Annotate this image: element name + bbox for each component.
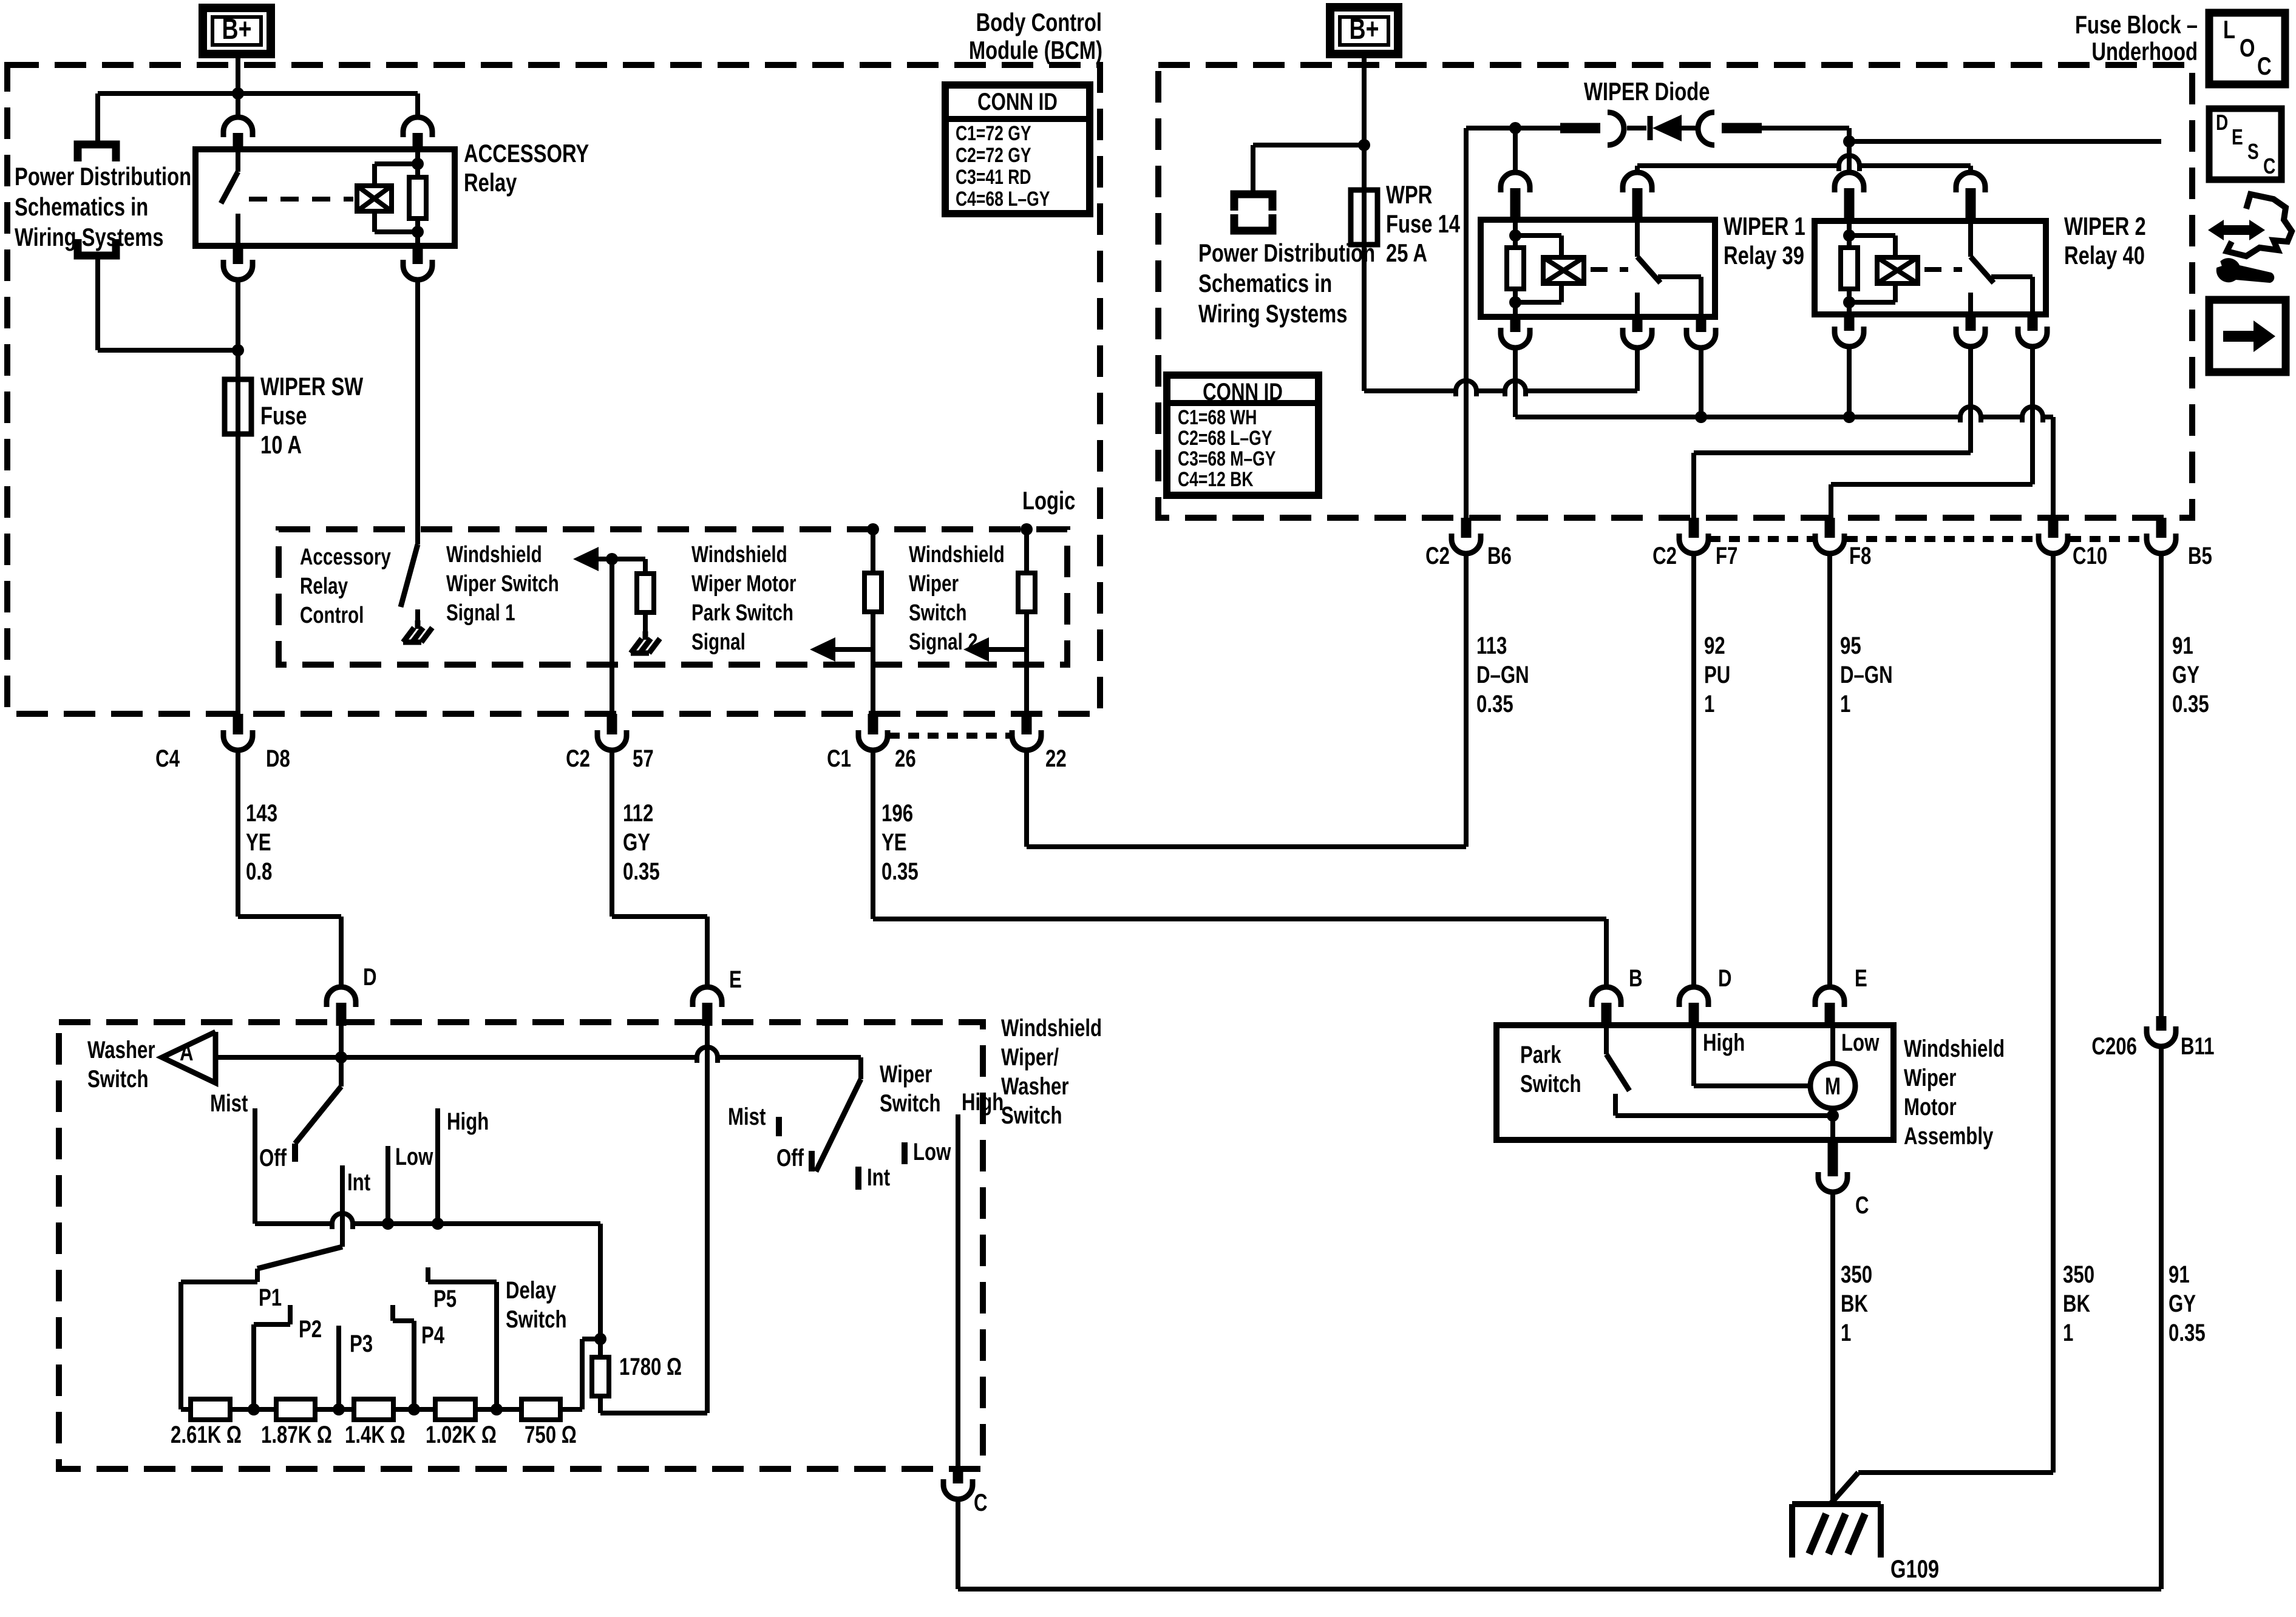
connector pin D (switch) [327,987,356,1007]
connector pin C (switch) [953,1469,963,1483]
node relay39 coil junctions [1509,229,1521,242]
relay coil (relay39) [1543,257,1584,283]
svg-text:CONN ID: CONN ID [977,88,1058,115]
svg-text:Relay 39: Relay 39 [1724,241,1804,269]
tap P5 [494,1282,499,1409]
svg-text:350: 350 [2063,1261,2094,1288]
wire relay39 coil loop [1515,233,1561,238]
wire 113 D-GN 0.35 (22 to B6) [1024,750,1029,847]
svg-text:C2=68 L–GY: C2=68 L–GY [1178,427,1272,450]
svg-text:C2: C2 [566,745,590,772]
svg-text:D–GN: D–GN [1476,661,1529,688]
svg-text:Switch: Switch [880,1090,941,1117]
svg-text:D: D [1718,964,1732,992]
switch: wiper mode selector (left bank) [295,1086,341,1144]
svg-text:B: B [1629,964,1643,992]
svg-text:Assembly: Assembly [1904,1122,1993,1150]
wire 143 YE 0.8 (D8 to wiper switch D) [236,750,240,917]
switch: wiper mode selector (right bank) [858,1057,863,1079]
diode D-WIPER [1648,116,1653,140]
ground G109 [1792,1501,1881,1507]
svg-text:E: E [729,966,742,993]
resistor chain wire [181,1407,191,1412]
svg-text:Park Switch: Park Switch [691,600,793,626]
resistor (park switch signal) [871,529,875,573]
svg-text:Logic: Logic [1022,486,1075,515]
node pin-26 net at logic boundary [867,523,879,535]
svg-text:CONN ID: CONN ID [1203,378,1283,405]
connector pin E (switch) [693,987,722,1007]
next-arrow icon box [2209,300,2286,372]
svg-text:Washer: Washer [1001,1073,1069,1100]
connector pin: relay40 bottom-middle [1966,314,1976,331]
connector pin E (motor) [1815,987,1844,1007]
connector pin: relay40 top-left [1835,172,1864,192]
wire E line down [705,1026,710,1413]
wire switch C to ground bus [956,1499,960,1589]
svg-text:Motor: Motor [1904,1093,1957,1120]
svg-text:Mist: Mist [728,1103,766,1130]
wire 350 BK 1 (motor C to ground) [1830,1192,1835,1505]
Logic dashed sub-box [279,529,1067,665]
connector pin: relay39 bottom-left [1510,317,1521,332]
svg-text:26: 26 [895,745,916,772]
resistor 1780 [598,1339,603,1357]
svg-text:0.8: 0.8 [246,858,272,885]
svg-text:B6: B6 [1487,542,1512,569]
svg-text:Low: Low [1841,1029,1879,1056]
svg-text:C2: C2 [1652,542,1677,569]
node B+ right junction [1358,139,1370,151]
svg-text:Switch: Switch [87,1065,149,1093]
wire relay39 pivot link to relay40 pivot (hops coil wire) [1635,166,1640,174]
arrow: wiper switch signal 1 [573,547,599,571]
connector pin D (motor) [1679,987,1708,1007]
switch: accessory relay control driver [401,544,418,607]
svg-text:D: D [363,963,377,991]
svg-text:Signal 1: Signal 1 [446,600,515,626]
svg-text:0.35: 0.35 [2169,1319,2206,1346]
svg-text:P5: P5 [433,1285,457,1312]
svg-text:0.35: 0.35 [2172,690,2209,717]
wire motor low lead [1830,1108,1835,1140]
svg-text:C10: C10 [2073,542,2107,569]
svg-text:GY: GY [2172,661,2199,688]
svg-text:GY: GY [2169,1290,2196,1317]
svg-text:High: High [1703,1029,1745,1056]
svg-text:WIPER 1: WIPER 1 [1724,212,1805,240]
svg-text:Underhood: Underhood [2091,37,2198,66]
wire left branch to power distribution bracket [95,93,100,144]
node washer/D junction [339,1026,344,1086]
svg-text:113: 113 [1476,632,1507,659]
WIPER 1 Relay 39 box K39 [1481,220,1715,317]
svg-text:C: C [974,1489,988,1516]
svg-text:91: 91 [2169,1261,2190,1288]
svg-text:WIPER Diode: WIPER Diode [1584,77,1710,106]
svg-text:Control: Control [300,603,364,628]
resistor (relay40 internal) [1847,221,1852,248]
svg-text:Fuse Block –: Fuse Block – [2075,10,2198,39]
svg-text:Windshield: Windshield [1904,1035,2005,1062]
svg-text:WIPER 2: WIPER 2 [2064,212,2146,240]
resistor 1.02K [435,1399,475,1420]
wire fuse output down [1362,245,1367,391]
svg-text:Low: Low [395,1143,433,1170]
wire B+ to relay top-right pin [415,93,420,117]
resistor (accessory relay internal) [415,149,420,177]
connector pin C10 [2048,518,2059,538]
svg-text:P3: P3 [350,1330,373,1357]
wire B+ stem [1362,54,1367,190]
svg-text:Schematics in: Schematics in [15,192,148,221]
svg-text:Low: Low [913,1138,951,1165]
svg-text:YE: YE [881,829,907,856]
node coil/resistor junctions [412,158,424,170]
washer switch off-page triangle A [162,1032,216,1083]
svg-text:C: C [2257,52,2272,80]
svg-text:C1: C1 [827,745,851,772]
off-page bracket (top) Power Distribution [78,144,116,161]
wire diode feed line [1466,126,1560,131]
node pin-22 net at logic boundary [1021,523,1033,535]
relay switch (relay39 contacts) [1635,220,1640,257]
wire delay pivot to resistor chain [181,1280,257,1284]
connector body dotted line (C1..22) [889,733,1011,739]
svg-text:F8: F8 [1849,542,1871,569]
svg-text:C1=68 WH: C1=68 WH [1178,406,1257,429]
node diode tap on WIPER1 coil feed [1509,122,1521,134]
svg-text:S: S [2247,140,2259,164]
wire fuse to pin D8 [236,434,240,714]
wire coil parallel loop [372,164,377,186]
svg-text:E: E [2232,125,2243,149]
contact Int (left) [340,1165,345,1247]
contact High (left) [435,1108,440,1222]
connector pin B5 [2156,518,2167,538]
svg-text:Off: Off [776,1144,804,1171]
svg-text:WPR: WPR [1386,180,1432,209]
svg-text:C4: C4 [155,745,180,772]
svg-text:Wiper: Wiper [909,571,959,597]
wire washer feed line (hops E wire) [216,1055,697,1060]
connector pin: relay40 top-right [1956,172,1985,192]
svg-text:0.35: 0.35 [623,858,660,885]
svg-text:10 A: 10 A [260,430,302,459]
wire motor high lead [1691,1028,1696,1086]
svg-text:E: E [1855,964,1867,992]
wire 350 BK 1 (C10 to ground) [2051,554,2056,1473]
svg-text:C4=68 L–GY: C4=68 L–GY [956,188,1050,211]
svg-text:B11: B11 [2181,1032,2215,1060]
svg-text:92: 92 [1704,632,1725,659]
power terminal B+ (left) [203,8,271,54]
wire resistor bus (hops Int line) [253,1222,257,1224]
svg-text:1: 1 [1840,690,1850,717]
off-page bracket (top, right side) [1234,194,1272,211]
connector body dotted line (F7..B5) [1710,536,1813,542]
svg-text:Washer: Washer [87,1036,155,1063]
connector pin: relay top-left (female cap + stub) [223,117,253,137]
node relay40 coil junctions [1843,229,1855,242]
connector pin: relay top-right [403,117,432,137]
contact Off (right) [809,1151,815,1171]
svg-text:C3=68 M–GY: C3=68 M–GY [1178,447,1275,470]
svg-text:1: 1 [1841,1319,1851,1346]
swap-arrows / vehicle icon [2208,220,2224,240]
connector pin: relay40 bottom-left [1844,314,1855,331]
contact Low (right) [902,1142,908,1164]
wire B6 branch down from diode line [1464,128,1469,518]
node: B+ distribution junction [98,91,418,96]
svg-text:Wiper/: Wiper/ [1001,1043,1059,1071]
svg-text:Wiring Systems: Wiring Systems [15,223,163,251]
contact Off (left) [292,1144,298,1162]
svg-text:C3=41 RD: C3=41 RD [956,166,1031,189]
svg-text:Off: Off [259,1144,287,1171]
resistor (signal 2) [1024,529,1029,573]
LOC icon box [2209,13,2285,84]
svg-text:1.02K Ω: 1.02K Ω [426,1421,497,1448]
contact Int (right) [855,1167,861,1190]
svg-text:1780 Ω: 1780 Ω [619,1353,682,1380]
svg-text:PU: PU [1704,661,1730,688]
ground (signal 1) [643,612,648,631]
BCM module dashed boundary box [7,65,1100,714]
contact Mist (left) [253,1108,257,1222]
svg-text:Switch: Switch [1001,1102,1062,1129]
svg-text:Wiper: Wiper [880,1060,932,1088]
tap P1 [251,1324,256,1409]
svg-text:O: O [2240,33,2255,62]
svg-text:C2: C2 [1425,542,1450,569]
svg-text:A: A [180,1039,194,1066]
relay coil (accessory relay) [357,186,392,211]
wire 91 GY 0.35 upper (B5 to C206) [2159,554,2164,1016]
svg-text:M: M [1825,1073,1841,1100]
svg-text:Int: Int [867,1164,890,1191]
connector pin: relay39 top-left [1501,172,1530,192]
connector C2 pin F7 [1689,518,1699,538]
CONN ID table (Fuse Block) [1167,375,1319,495]
svg-text:196: 196 [881,799,913,827]
svg-text:22: 22 [1045,745,1067,772]
svg-text:95: 95 [1840,632,1861,659]
svg-text:1: 1 [2063,1319,2073,1346]
svg-text:Fuse 14: Fuse 14 [1386,209,1460,238]
svg-text:Signal: Signal [691,629,746,655]
svg-text:1.87K Ω: 1.87K Ω [261,1421,332,1448]
svg-text:Fuse: Fuse [260,401,307,430]
svg-text:B+: B+ [222,13,252,46]
connector C1 pin 26 [868,714,878,734]
svg-text:Switch: Switch [506,1306,567,1333]
wire WIPER1 relay coil top feed [1513,128,1518,174]
svg-text:Windshield: Windshield [691,542,787,568]
node signal-1 junction [606,553,618,565]
svg-text:High: High [447,1108,489,1135]
svg-text:25 A: 25 A [1386,239,1427,267]
wrench icon [2216,258,2274,283]
svg-text:Windshield: Windshield [1001,1014,1102,1042]
svg-text:Wiring Systems: Wiring Systems [1198,299,1347,328]
svg-text:P1: P1 [259,1284,282,1311]
off-page bracket (bottom) Power Distribution [78,239,116,256]
wire accessory relay control line [415,280,420,544]
svg-text:Accessory: Accessory [300,544,391,570]
svg-text:D–GN: D–GN [1840,661,1893,688]
resistor (relay39 internal) [1513,220,1518,248]
connector inline (diode right half) [1698,112,1714,145]
resistor (signal 1 pull) [637,574,654,612]
svg-text:112: 112 [623,799,653,827]
tap P2/P3 [336,1326,341,1409]
resistor 2.61K [191,1399,230,1420]
svg-text:Mist: Mist [210,1090,248,1117]
wiper motor assembly box [1496,1025,1894,1140]
svg-text:1: 1 [1704,690,1714,717]
power terminal B+ (right) [1330,7,1398,54]
wire bus A: relay outputs to C10 (hops relay40 pins) [1513,347,1518,417]
connector pin F8 [1825,518,1835,538]
wire 112 GY 0.35 (57 to wiper switch E) [610,750,614,917]
svg-text:G109: G109 [1890,1554,1939,1583]
svg-text:BK: BK [2063,1290,2090,1317]
connector pin: relay40 bottom-right [2028,314,2038,331]
svg-text:0.35: 0.35 [1476,690,1513,717]
arrow: wiper switch signal 2 [963,637,989,662]
connector pin: relay39 bottom-right [1696,317,1707,332]
wire relay40 coil loop [1849,233,1895,238]
switch: delay selector [257,1247,342,1269]
wire 92 PU 1 (F7 to motor D) [1691,554,1696,987]
wire branch to power distribution bracket (right) [1253,143,1364,147]
connector pin: relay bottom-right [413,246,423,264]
connector C4 pin D8 [233,714,243,734]
svg-text:C2=72 GY: C2=72 GY [956,144,1031,167]
arrow: park switch signal [810,637,835,662]
wire relay40 switch common to F7 [1968,345,1973,453]
svg-text:750 Ω: 750 Ω [525,1421,577,1448]
svg-text:Module (BCM): Module (BCM) [969,36,1102,64]
svg-text:BK: BK [1841,1290,1868,1317]
svg-text:143: 143 [246,799,277,827]
svg-text:Schematics in: Schematics in [1198,269,1332,297]
wire B+ stem into BCM [236,54,240,117]
relay switch (accessory relay contacts) [236,149,240,172]
svg-text:Relay 40: Relay 40 [2064,241,2145,269]
ACCESSORY Relay box U-ACC [195,149,455,246]
svg-text:C4=12 BK: C4=12 BK [1178,468,1254,491]
svg-text:91: 91 [2172,632,2193,659]
wire signal-1 to pull-up resistor [612,557,645,561]
svg-text:B+: B+ [1350,13,1379,46]
svg-text:YE: YE [246,829,271,856]
connector pin: relay39 top-right [1623,172,1652,192]
motor M1 [1830,1028,1835,1063]
svg-text:C: C [2263,154,2275,178]
svg-text:Relay: Relay [464,168,517,197]
DESC icon box [2209,109,2281,180]
relay coil (relay40) [1877,257,1918,283]
connector C2 pin B6 [1461,518,1472,538]
wire chain to delay resistor node [580,1339,585,1409]
off-page bracket (bottom, right side) [1234,214,1272,231]
Fuse Block dashed boundary box [1158,65,2192,518]
svg-text:Switch: Switch [1520,1070,1581,1097]
wire signal-1 to pin 57 [610,559,614,714]
wire 95 D-GN 1 (F8 to motor E) [1827,554,1832,987]
svg-text:F7: F7 [1716,542,1737,569]
tap P4 [412,1321,416,1409]
svg-text:Windshield: Windshield [909,542,1005,568]
wire park switch to motor low side [1615,1113,1833,1118]
svg-text:Body Control: Body Control [976,8,1102,36]
WIPER 2 Relay 40 box K40 [1815,221,2046,314]
svg-text:Switch: Switch [909,600,966,626]
svg-text:C1=72 GY: C1=72 GY [956,122,1031,145]
svg-text:L: L [2223,15,2235,44]
node bus A junctions [1699,347,1703,417]
relay actuator dashed link [249,197,353,202]
connector C2 pin 57 [607,714,617,734]
wire diode output to B5 feed [1847,128,1852,141]
contact Mist (right) [776,1117,782,1136]
resistor 1.87K [276,1399,315,1420]
contact Low (left) [385,1146,390,1222]
wiper/washer switch dashed boundary box [59,1022,983,1469]
wire 91 GY 0.35 lower (C206 down) [2159,1046,2164,1589]
node fuse feed junction [232,344,244,356]
svg-text:D8: D8 [266,745,290,772]
svg-text:Wiper: Wiper [1904,1064,1956,1091]
connector C206 pin B11 [2156,1016,2167,1031]
connector inline (diode left half) [1560,123,1600,134]
svg-text:Power Distribution: Power Distribution [15,162,191,191]
svg-text:GY: GY [623,829,650,856]
svg-text:C206: C206 [2091,1032,2137,1060]
wire mode bus to delay node [598,1224,603,1339]
svg-text:ACCESSORY: ACCESSORY [464,139,589,168]
svg-text:Int: Int [347,1168,370,1196]
relay switch (relay40 contacts) [1968,221,1973,257]
CONN ID table (BCM) [945,85,1090,214]
svg-text:D: D [2216,110,2228,135]
svg-text:High: High [962,1088,1004,1116]
svg-text:Relay: Relay [300,574,348,599]
relay40 actuator dashed link [1924,267,1962,272]
svg-text:2.61K Ω: 2.61K Ω [171,1421,242,1448]
svg-text:Wiper Switch: Wiper Switch [446,571,559,597]
svg-text:Windshield: Windshield [446,542,542,568]
connector pin 22 [1022,714,1032,734]
svg-text:P2: P2 [299,1315,322,1343]
resistor 750 [521,1399,560,1420]
svg-text:B5: B5 [2188,542,2212,569]
svg-text:350: 350 [1841,1261,1872,1288]
connector pin C (motor) [1828,1140,1838,1176]
wire 196 YE 0.35 (26 to park switch B) [871,750,875,919]
wire relay40 coil top feed [1847,141,1852,174]
svg-text:Delay: Delay [506,1276,556,1304]
svg-text:Park: Park [1520,1041,1561,1068]
wire relay output down to WIPER SW fuse [236,280,240,379]
fuse F-WPR (WPR Fuse 14 25 A) [1351,190,1377,245]
wire fused feed to WIPER1 relay common (hops two wires) [1364,388,1456,393]
connector pin B (motor) [1592,987,1621,1007]
resistor 1.4K [354,1399,393,1420]
switch: park switch [1604,1028,1609,1054]
